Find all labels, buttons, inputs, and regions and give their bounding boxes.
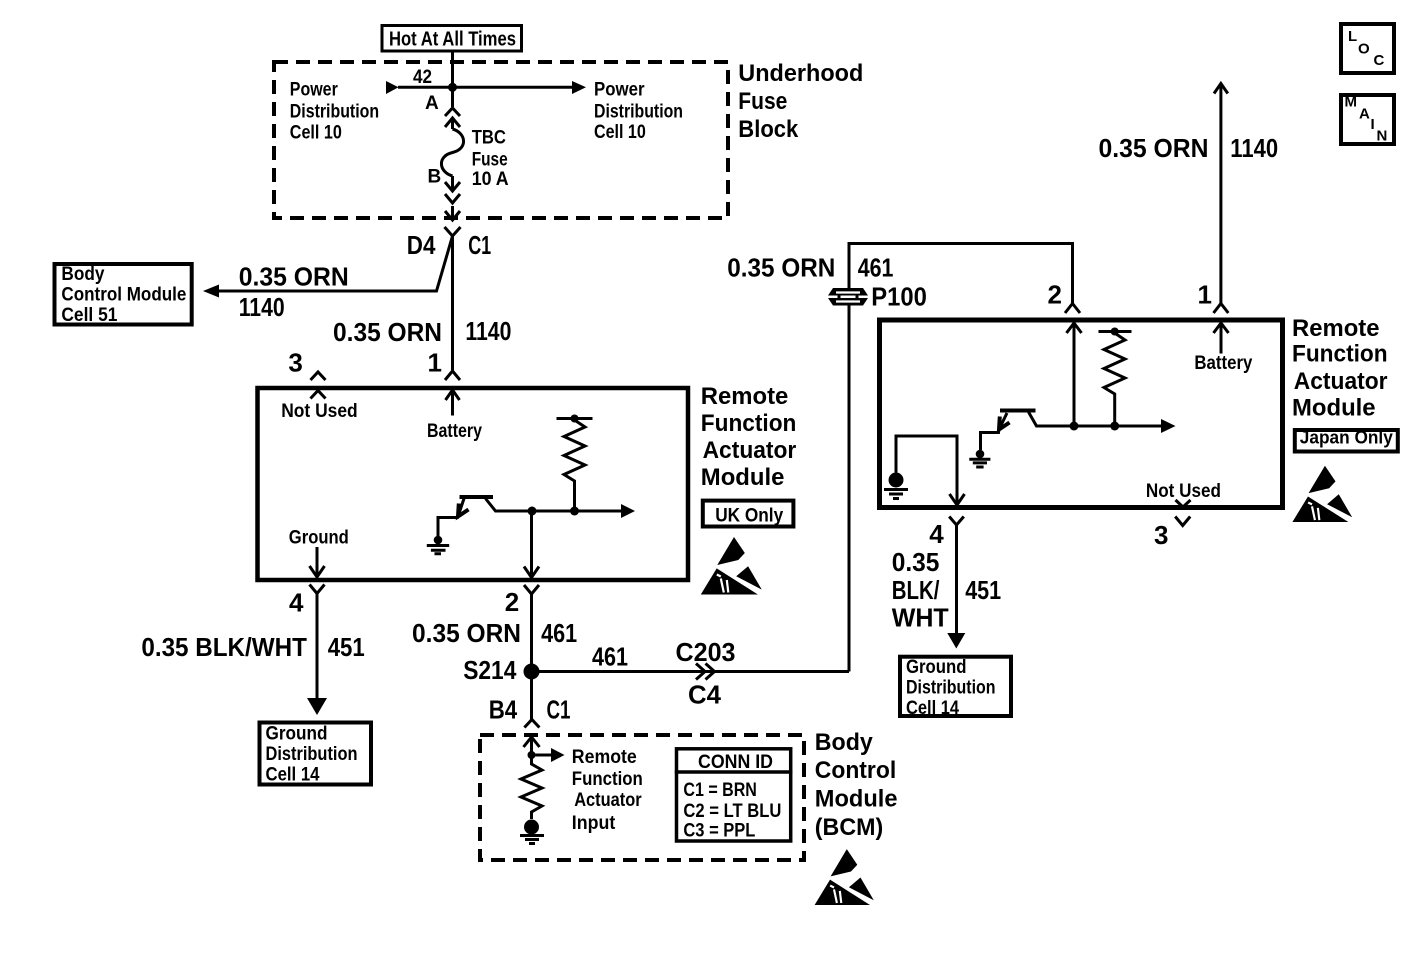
svg-text:A: A — [425, 93, 439, 114]
svg-text:I: I — [1371, 116, 1375, 133]
svg-text:Distribution: Distribution — [906, 678, 996, 699]
svg-text:B: B — [428, 167, 442, 188]
svg-text:Input: Input — [572, 813, 616, 834]
svg-text:B4: B4 — [489, 694, 518, 724]
svg-text:Power: Power — [290, 79, 338, 100]
svg-text:Distribution: Distribution — [290, 101, 379, 122]
svg-text:P100: P100 — [871, 282, 927, 312]
svg-text:Not Used: Not Used — [281, 401, 358, 422]
svg-text:1: 1 — [428, 348, 442, 378]
svg-text:M: M — [1345, 94, 1358, 111]
svg-text:0.35 ORN: 0.35 ORN — [333, 317, 442, 347]
svg-text:Module: Module — [701, 464, 785, 491]
svg-text:1: 1 — [1198, 279, 1212, 309]
svg-text:Function: Function — [701, 410, 797, 437]
svg-text:Ground: Ground — [289, 527, 349, 548]
svg-text:Remote: Remote — [701, 383, 789, 410]
svg-text:Actuator: Actuator — [574, 790, 642, 811]
svg-text:1140: 1140 — [239, 292, 285, 322]
svg-text:4: 4 — [929, 519, 944, 549]
svg-text:C: C — [1374, 52, 1385, 69]
svg-text:3: 3 — [288, 348, 302, 378]
svg-text:Cell 10: Cell 10 — [290, 123, 342, 144]
svg-text:Battery: Battery — [1194, 353, 1252, 374]
svg-text:1140: 1140 — [1230, 133, 1278, 163]
svg-text:461: 461 — [541, 618, 577, 648]
svg-text:0.35 BLK/WHT: 0.35 BLK/WHT — [141, 632, 307, 662]
svg-text:Module: Module — [815, 785, 898, 812]
svg-text:Ground: Ground — [266, 724, 328, 745]
svg-text:Cell 14: Cell 14 — [266, 765, 320, 786]
svg-text:Not Used: Not Used — [1146, 481, 1221, 502]
svg-text:Module: Module — [1292, 395, 1376, 422]
svg-text:Battery: Battery — [427, 421, 482, 442]
svg-text:TBC: TBC — [472, 128, 507, 149]
svg-text:Japan Only: Japan Only — [1300, 428, 1393, 448]
svg-text:461: 461 — [592, 642, 628, 672]
svg-text:A: A — [1359, 105, 1370, 122]
svg-text:Actuator: Actuator — [1294, 368, 1388, 395]
svg-text:Cell 51: Cell 51 — [61, 305, 117, 326]
svg-text:3: 3 — [1154, 520, 1168, 550]
svg-text:Control: Control — [815, 757, 896, 784]
svg-text:0.35 ORN: 0.35 ORN — [412, 618, 521, 648]
svg-text:D4: D4 — [407, 230, 436, 260]
svg-text:Remote: Remote — [572, 747, 637, 768]
svg-text:0.35 ORN: 0.35 ORN — [239, 261, 349, 291]
svg-text:C1 = BRN: C1 = BRN — [683, 780, 757, 801]
svg-text:0.35: 0.35 — [892, 547, 940, 577]
svg-text:Control Module: Control Module — [61, 285, 186, 306]
svg-text:2: 2 — [1048, 279, 1062, 309]
svg-text:451: 451 — [328, 632, 365, 662]
svg-text:4: 4 — [289, 588, 304, 618]
svg-text:C1: C1 — [547, 694, 571, 724]
svg-text:461: 461 — [858, 252, 894, 282]
svg-text:C1: C1 — [468, 230, 491, 260]
svg-text:Body: Body — [61, 264, 104, 285]
svg-text:Power: Power — [594, 79, 645, 100]
svg-text:BLK/: BLK/ — [892, 575, 940, 605]
svg-text:O: O — [1358, 41, 1370, 58]
svg-text:UK Only: UK Only — [715, 505, 783, 526]
svg-text:C203: C203 — [676, 637, 736, 667]
svg-text:Actuator: Actuator — [703, 437, 797, 464]
svg-text:1140: 1140 — [465, 316, 511, 346]
svg-text:Fuse: Fuse — [472, 150, 508, 171]
svg-text:2: 2 — [505, 587, 519, 617]
svg-text:(BCM): (BCM) — [815, 814, 883, 841]
svg-text:10 A: 10 A — [472, 169, 509, 190]
svg-text:Body: Body — [815, 729, 874, 756]
svg-text:Fuse: Fuse — [738, 88, 787, 115]
svg-text:Remote: Remote — [1292, 315, 1380, 342]
svg-text:Cell 14: Cell 14 — [906, 698, 959, 719]
svg-text:0.35 ORN: 0.35 ORN — [1099, 133, 1209, 163]
svg-text:S214: S214 — [463, 655, 517, 685]
svg-text:CONN ID: CONN ID — [698, 752, 773, 773]
svg-text:Ground: Ground — [906, 657, 967, 678]
svg-text:Distribution: Distribution — [266, 744, 358, 765]
svg-text:0.35 ORN: 0.35 ORN — [727, 252, 835, 282]
svg-text:Underhood: Underhood — [738, 60, 863, 87]
svg-text:L: L — [1348, 28, 1357, 45]
svg-text:C4: C4 — [688, 680, 722, 710]
svg-text:Function: Function — [1292, 341, 1388, 368]
svg-text:42: 42 — [413, 67, 432, 88]
svg-text:C2 = LT BLU: C2 = LT BLU — [683, 801, 781, 822]
svg-text:Cell 10: Cell 10 — [594, 122, 646, 143]
svg-text:WHT: WHT — [892, 603, 949, 633]
svg-text:Function: Function — [572, 769, 643, 790]
svg-text:Hot At All Times: Hot At All Times — [389, 29, 516, 51]
svg-text:C3 = PPL: C3 = PPL — [683, 821, 755, 842]
svg-text:Block: Block — [738, 116, 799, 143]
svg-text:N: N — [1377, 128, 1388, 145]
svg-text:Distribution: Distribution — [594, 101, 683, 122]
svg-text:451: 451 — [965, 575, 1001, 605]
